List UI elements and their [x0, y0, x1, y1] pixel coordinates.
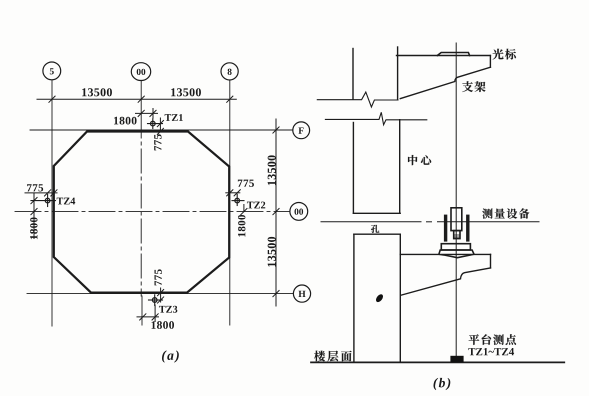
floor line: [311, 361, 564, 363]
dimension 775 for TZ3: [158, 288, 164, 303]
label lou-ceng-mian (floor surface): [314, 351, 325, 362]
bracket right edge: [489, 56, 491, 68]
dimension 775 for TZ1: [157, 118, 163, 135]
break line upper: [317, 92, 398, 107]
dimension 1800 for TZ1: [136, 109, 158, 119]
grid bubble 5: [43, 62, 61, 80]
grid bubble F: [293, 122, 310, 139]
grid line H horizontal: [27, 293, 293, 295]
survey point TZ4: [31, 194, 56, 206]
top dimension line 13500+13500: [37, 96, 236, 102]
middle column left edge: [352, 123, 354, 214]
break line lower: [325, 112, 426, 125]
platform survey target mark: [450, 356, 463, 362]
light target plate: [437, 53, 469, 56]
lower column right edge: [399, 234, 401, 362]
dimension 1800 for TZ2: [241, 205, 247, 215]
dimension 775 for TZ2: [226, 190, 241, 196]
label TZ1~TZ4: [468, 348, 514, 355]
grid line F horizontal: [30, 129, 293, 131]
dimension 1800 for TZ4: [31, 193, 37, 239]
instrument eyepiece: [454, 231, 460, 239]
corbel right edge: [490, 254, 492, 268]
upper column right edge: [397, 47, 399, 99]
grid line 8 vertical: [229, 81, 231, 326]
measuring instrument body: [451, 208, 462, 239]
dimension 775 for TZ4: [25, 190, 57, 196]
lower column top edge: [354, 233, 400, 235]
label ping-tai-ce-dian (platform survey points): [469, 334, 480, 345]
instrument base trapezoid with pointer: [439, 250, 474, 258]
dimension 1800 for TZ3: [137, 305, 159, 322]
label kong (hole): [371, 225, 379, 233]
grid line 5 vertical: [51, 80, 53, 326]
bracket top chord: [397, 55, 491, 57]
right dimension line 13500+13500: [273, 119, 279, 306]
caption (b): [433, 378, 450, 390]
survey point TZ1: [148, 119, 163, 129]
plumb centerline: [455, 43, 457, 356]
corbel top chord: [400, 253, 490, 255]
ink blob on column: [375, 293, 385, 303]
instrument left support bar: [444, 215, 447, 242]
corbel bottom slope with jog: [401, 268, 491, 295]
upper column left edge: [352, 49, 354, 100]
caption (a): [162, 350, 179, 362]
instrument right support bar: [466, 215, 469, 242]
label zhong-xin (center): [408, 155, 417, 165]
grid bubble 00 right: [290, 203, 308, 221]
level 00 line through hole: [321, 221, 539, 223]
label ce-liang-she-bei (measuring equipment): [482, 208, 492, 218]
survey point TZ3: [149, 295, 163, 306]
survey point TZ2: [232, 194, 244, 205]
bracket bottom slope with jog: [400, 67, 490, 98]
instrument base plate: [441, 244, 470, 250]
grid line 00 vertical axis: [140, 81, 143, 326]
label guang-biao (light target): [493, 49, 504, 60]
axis 00 horizontal centerline: [15, 211, 290, 213]
lower column left edge: [353, 234, 355, 362]
label zhi-jia (bracket): [462, 81, 473, 92]
octagon wall outline: [54, 132, 229, 293]
slab soffit line: [353, 212, 400, 214]
middle column right edge: [399, 120, 401, 214]
grid bubble 00 top: [131, 63, 150, 81]
grid bubble H: [293, 285, 310, 302]
grid bubble 8: [221, 63, 238, 80]
